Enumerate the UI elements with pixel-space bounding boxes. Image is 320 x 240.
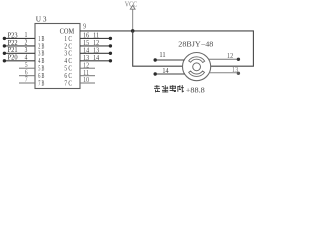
- svg-text:11: 11: [159, 50, 166, 59]
- node P23 junction dot: [3, 37, 6, 40]
- wire output 3C net 13: [80, 52, 112, 54]
- node P22 junction dot: [3, 44, 6, 47]
- wire motor pin 13: [209, 72, 238, 74]
- wire output 2C net 12: [80, 45, 112, 47]
- wire VCC to motor left common: [133, 31, 183, 66]
- svg-text:VCC: VCC: [125, 1, 138, 8]
- motor bottom winding: [189, 71, 205, 76]
- wire output 4C net 14: [80, 60, 112, 62]
- pin 10 stub wire: [80, 82, 95, 84]
- motor body circle: [183, 53, 211, 81]
- wire motor pin 12: [209, 58, 239, 60]
- svg-text:7 B: 7 B: [38, 78, 44, 87]
- svg-text:7: 7: [25, 75, 28, 84]
- pin 6 stub wire: [19, 75, 35, 77]
- wire P23 to pin 1: [4, 37, 35, 39]
- motor top winding: [189, 57, 205, 63]
- pin 12 stub wire: [80, 67, 95, 69]
- wire P21 to pin 3: [4, 52, 35, 54]
- VCC symbol: [130, 5, 135, 31]
- IC U3 body: [35, 24, 80, 89]
- node dot motor 12: [237, 58, 240, 61]
- svg-text:7 C: 7 C: [64, 78, 72, 87]
- node dot motor 14: [154, 72, 157, 75]
- wire motor pin 14: [155, 73, 185, 75]
- node dot net 12: [109, 44, 112, 47]
- svg-text:12: 12: [227, 51, 233, 60]
- svg-text:28BJY−48: 28BJY−48: [178, 39, 213, 48]
- wire output 1C net 11: [80, 37, 112, 39]
- svg-text:P20: P20: [8, 53, 18, 62]
- svg-text:14: 14: [93, 53, 99, 62]
- pin 7 stub wire: [19, 82, 35, 84]
- wire P20 to pin 4: [4, 60, 35, 62]
- pin 5 stub wire: [19, 67, 35, 69]
- node P21 junction dot: [3, 52, 6, 55]
- wire motor pin 11: [155, 59, 184, 61]
- node dot net 13: [109, 52, 112, 55]
- svg-text:9: 9: [83, 22, 86, 31]
- wire P22 to pin 2: [4, 45, 35, 47]
- caption Chinese text stepper-motor glyph blocks: [154, 85, 184, 92]
- svg-text:U 3: U 3: [36, 15, 47, 24]
- pin 11 stub wire: [80, 75, 95, 77]
- VCC rail wire pin9 to motor right common: [80, 31, 253, 66]
- node dot motor 11: [154, 58, 157, 61]
- svg-text:14: 14: [162, 66, 168, 75]
- node dot net 11: [109, 37, 112, 40]
- node dot net 14: [109, 59, 112, 62]
- svg-text:10: 10: [83, 75, 89, 84]
- node P20 junction dot: [3, 59, 6, 62]
- svg-text:13: 13: [232, 65, 238, 74]
- node dot motor 13: [237, 72, 240, 75]
- VCC junction dot: [131, 29, 135, 33]
- motor rotor circle: [193, 63, 201, 71]
- svg-text:+88.8: +88.8: [186, 85, 205, 94]
